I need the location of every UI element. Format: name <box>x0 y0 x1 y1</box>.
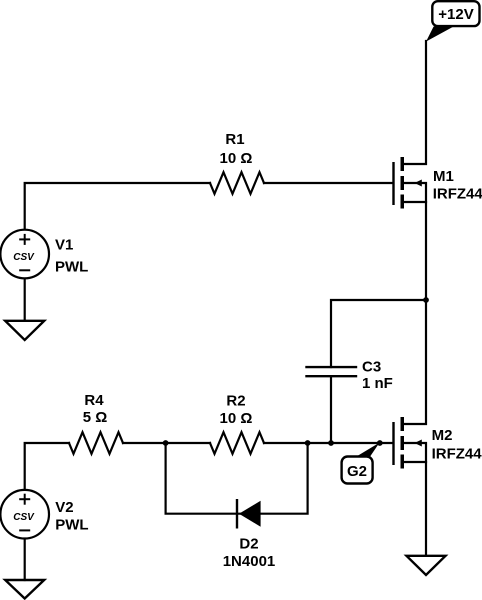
svg-text:PWL: PWL <box>55 516 88 533</box>
svg-text:1N4001: 1N4001 <box>223 553 276 570</box>
svg-text:M2: M2 <box>432 427 453 444</box>
svg-text:D2: D2 <box>239 535 258 552</box>
svg-text:R2: R2 <box>226 392 245 409</box>
svg-text:M1: M1 <box>433 168 454 185</box>
svg-text:CSV: CSV <box>13 512 35 523</box>
svg-text:R1: R1 <box>225 131 244 148</box>
svg-text:V2: V2 <box>55 499 73 516</box>
svg-text:10 Ω: 10 Ω <box>220 150 253 167</box>
svg-text:R4: R4 <box>84 392 104 409</box>
svg-text:IRFZ44: IRFZ44 <box>433 185 482 202</box>
svg-text:CSV: CSV <box>13 252 35 263</box>
svg-text:1 nF: 1 nF <box>362 375 393 392</box>
svg-text:10 Ω: 10 Ω <box>220 410 253 427</box>
svg-text:C3: C3 <box>362 359 381 376</box>
svg-text:IRFZ44: IRFZ44 <box>432 446 482 463</box>
svg-text:+12V: +12V <box>438 6 473 23</box>
svg-text:PWL: PWL <box>55 259 88 276</box>
svg-text:V1: V1 <box>55 237 73 254</box>
svg-text:G2: G2 <box>347 463 367 480</box>
svg-text:5 Ω: 5 Ω <box>83 409 108 426</box>
